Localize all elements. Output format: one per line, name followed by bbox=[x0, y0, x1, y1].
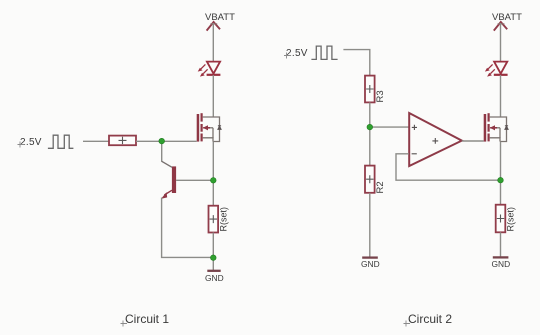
svg-text:GND: GND bbox=[361, 259, 380, 269]
svg-text:GND: GND bbox=[205, 273, 224, 283]
node D junction bbox=[498, 177, 504, 183]
LED D1 bbox=[198, 62, 221, 77]
svg-text:2.5V: 2.5V bbox=[20, 137, 42, 148]
op-amp U1 bbox=[409, 113, 462, 166]
svg-text:2.5V: 2.5V bbox=[286, 48, 308, 59]
wire Q2 emitter down and to ground node bbox=[162, 198, 214, 258]
wire VBATT to LED anode bbox=[212, 23, 214, 62]
svg-text:GND: GND bbox=[492, 259, 511, 269]
caption Circuit 1 bbox=[121, 312, 170, 327]
wire node A to MOSFET gate bbox=[162, 140, 197, 142]
wire node A down to Q2 collector bbox=[161, 141, 163, 161]
MOSFET Q1 bbox=[197, 113, 221, 141]
wire input to R1 bbox=[83, 140, 109, 142]
svg-text:R(set): R(set) bbox=[506, 207, 516, 232]
power flag VBATT (circuit 1) bbox=[205, 12, 235, 31]
svg-text:R(set): R(set) bbox=[219, 207, 229, 232]
svg-text:Circuit 1: Circuit 1 bbox=[125, 312, 169, 326]
MOSFET Q3 bbox=[484, 113, 508, 141]
ground GND (below R2) bbox=[361, 258, 380, 269]
svg-text:Circuit 2: Circuit 2 bbox=[408, 312, 452, 326]
wire R2 to GND bbox=[369, 193, 371, 257]
node A junction bbox=[159, 138, 165, 144]
ground node junction bbox=[211, 255, 217, 261]
wire feedback: inverting input to node D bbox=[396, 154, 501, 180]
wire MOSFET source down to node B bbox=[212, 142, 214, 206]
transistor Q2 (BJT) bbox=[161, 161, 213, 199]
ground GND (circuit 1) bbox=[205, 271, 224, 283]
wire input to R3 bbox=[343, 50, 369, 76]
label 2.5V (circuit 2) bbox=[284, 48, 308, 59]
square wave symbol (circuit 1) bbox=[48, 135, 74, 148]
svg-text:R3: R3 bbox=[375, 90, 386, 102]
node C junction bbox=[367, 124, 373, 130]
power flag VBATT (circuit 2) bbox=[492, 12, 522, 31]
svg-text:R2: R2 bbox=[375, 181, 386, 193]
wire R3 to node C bbox=[369, 102, 371, 165]
wire MOSFET source to node D bbox=[500, 142, 502, 205]
wire LED cathode to MOSFET drain (circuit 2) bbox=[500, 75, 502, 117]
wire op-amp output to MOSFET gate bbox=[462, 140, 484, 142]
wire R1 to node A bbox=[136, 140, 162, 142]
square wave symbol (circuit 2) bbox=[311, 46, 337, 59]
wire node C to op-amp non-inverting input bbox=[370, 126, 409, 128]
svg-text:VBATT: VBATT bbox=[205, 12, 235, 23]
svg-text:VBATT: VBATT bbox=[492, 12, 522, 23]
ground GND (below R(set) circuit 2) bbox=[492, 257, 511, 269]
resistor R(set) (circuit 2) bbox=[496, 205, 516, 233]
wire VBATT to LED anode (circuit 2) bbox=[500, 23, 502, 62]
resistor R(set) (circuit 1) bbox=[209, 206, 229, 233]
wire LED cathode to MOSFET drain bbox=[212, 75, 214, 117]
resistor R2 bbox=[365, 166, 386, 194]
body diode of Q3 bbox=[505, 126, 508, 130]
LED D2 bbox=[485, 62, 508, 77]
wire R(set) to GND (circuit 2) bbox=[500, 232, 502, 257]
resistor R3 bbox=[365, 76, 386, 103]
label 2.5V (circuit 1) bbox=[18, 137, 42, 148]
caption Circuit 2 bbox=[404, 312, 453, 327]
node B junction bbox=[211, 178, 217, 184]
wire R(set) to ground node bbox=[212, 233, 214, 271]
body diode of Q1 bbox=[218, 126, 221, 130]
resistor R1 (series input) bbox=[109, 136, 136, 146]
